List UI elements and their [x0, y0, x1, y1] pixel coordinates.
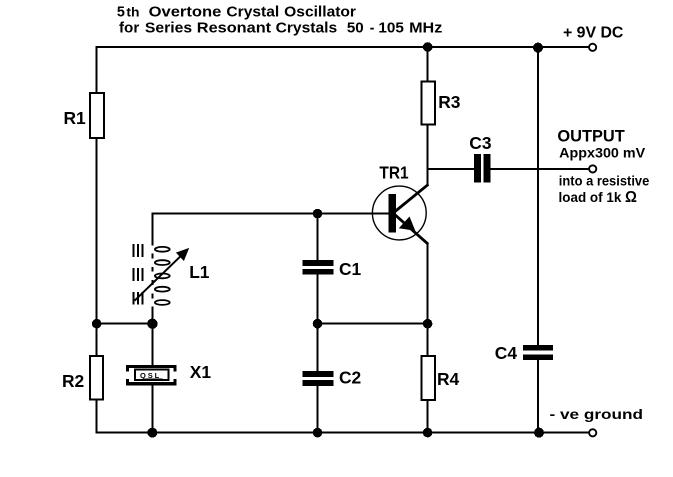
capacitor C2 — [303, 371, 334, 377]
junction mid wire / L1-X1 column — [147, 319, 157, 329]
capacitor C4 — [523, 345, 553, 350]
svg-text:- ve ground: - ve ground — [550, 406, 644, 422]
svg-text:OUTPUT: OUTPUT — [557, 127, 625, 146]
svg-text:Crystals: Crystals — [276, 19, 338, 36]
wire R4 bottom — [427, 399, 429, 434]
svg-text:Crystal: Crystal — [226, 4, 279, 21]
wire L1 column bottom — [151, 307, 153, 325]
junction bottom rail / R4 column — [423, 428, 433, 438]
terminal OUTPUT — [589, 165, 596, 172]
inductor L1 core dashed lines — [134, 244, 143, 305]
junction top rail / R3 column — [423, 42, 433, 52]
wire R3 column bottom / collector vertical — [427, 123, 429, 186]
svg-text:C1: C1 — [339, 259, 362, 279]
svg-text:Overtone: Overtone — [149, 4, 222, 21]
resistor R4 — [422, 356, 435, 400]
svg-text:+ 9V DC: + 9V DC — [563, 24, 624, 41]
terminal ground — [589, 429, 596, 436]
emitter diagonal — [395, 215, 428, 244]
inductor L1 coil loops — [155, 247, 170, 305]
transistor TR1 — [370, 184, 428, 244]
wire bottom rail — [96, 432, 589, 434]
svg-text:load of 1k Ω: load of 1k Ω — [559, 189, 638, 206]
svg-text:into a resistive: into a resistive — [559, 172, 650, 188]
svg-text:for: for — [119, 19, 139, 36]
svg-text:R4: R4 — [437, 369, 460, 389]
terminal +9V — [589, 44, 596, 51]
svg-text:C3: C3 — [469, 133, 492, 153]
svg-text:C2: C2 — [339, 367, 361, 387]
junction bottom rail / C4 column — [534, 428, 544, 438]
svg-text:MHz: MHz — [409, 19, 443, 36]
collector diagonal — [395, 184, 428, 211]
wire mid right segment C1-C2 node to emitter column — [318, 323, 428, 325]
svg-text:TR1: TR1 — [379, 163, 408, 183]
junction mid wire / C1-C2 column — [313, 319, 323, 329]
wire X1 column lower — [151, 385, 153, 433]
svg-text:QSL: QSL — [140, 371, 161, 380]
wire emitter vertical to R4 — [427, 243, 429, 357]
svg-text:th: th — [126, 6, 139, 20]
wire C1 column lower — [317, 275, 319, 325]
svg-text:Resonant: Resonant — [197, 19, 271, 36]
wire L1 column top — [151, 213, 153, 246]
svg-text:105: 105 — [378, 19, 404, 36]
svg-text:-: - — [370, 19, 375, 36]
base wire into circle — [370, 213, 390, 215]
resistor R1 — [90, 93, 104, 138]
svg-text:5: 5 — [117, 4, 126, 21]
svg-text:X1: X1 — [190, 362, 212, 382]
wire C3 to output terminal — [491, 168, 589, 170]
wire left rail upper — [96, 46, 98, 95]
capacitor C1 — [303, 260, 334, 266]
svg-text:Series: Series — [145, 19, 192, 36]
svg-text:Oscillator: Oscillator — [284, 4, 356, 21]
wire X1 column upper — [151, 323, 153, 365]
svg-text:R3: R3 — [438, 92, 461, 112]
wire C1 column upper — [317, 213, 319, 260]
base bar — [389, 194, 397, 233]
svg-text:R1: R1 — [64, 108, 87, 128]
wire C2 column upper — [317, 323, 319, 371]
wire base horizontal L1 to TR1 base — [152, 213, 390, 215]
wire C2 column lower — [317, 386, 319, 434]
svg-text:50: 50 — [347, 19, 364, 36]
junction bottom rail / C2 column — [313, 428, 323, 438]
wire +9V right rail upper — [537, 47, 539, 345]
emitter arrow — [399, 217, 416, 231]
wire top rail — [96, 46, 589, 48]
wire +9V right rail lower — [537, 360, 539, 433]
junction bottom rail / X1 column — [147, 428, 157, 438]
wire left rail lower — [96, 136, 98, 434]
wire mid left segment R2-top to X1-top — [97, 323, 153, 325]
wire collector to C3 — [428, 168, 474, 170]
resistor R3 — [421, 82, 434, 125]
junction base wire / C1 column — [313, 209, 323, 219]
junction mid wire / left rail — [92, 319, 102, 329]
wire L1 column dashes behind coil — [151, 254, 153, 299]
svg-text:L1: L1 — [189, 262, 210, 282]
svg-text:R2: R2 — [62, 371, 84, 391]
capacitor C3 — [474, 154, 481, 182]
junction top rail / +9V rail — [533, 43, 543, 53]
wire R3 column top — [427, 46, 429, 83]
crystal X1 — [126, 365, 177, 386]
svg-text:C4: C4 — [495, 343, 518, 363]
inductor L1 adjust arrow — [135, 255, 182, 300]
resistor R2 — [90, 356, 103, 400]
junction mid wire / emitter column — [423, 319, 433, 329]
svg-text:Appx300 mV: Appx300 mV — [559, 145, 646, 161]
